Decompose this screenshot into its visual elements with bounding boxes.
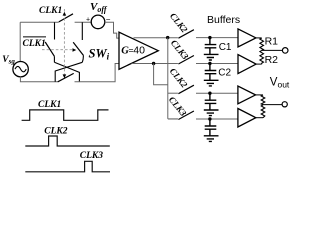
wire cross D2 [55,62,82,82]
mid rail (inverting node) [132,63,168,65]
waveform CLK2 [25,136,110,146]
capacitor C1 [205,38,217,55]
svg-text:R2: R2 [265,54,279,66]
source Vsg [13,61,28,76]
ground [204,136,219,142]
capacitor C3 [205,93,217,110]
op-amp G=40 triangle [119,32,158,69]
resistor zigzag lower (bottom pair) [261,105,265,118]
capacitor C4 [205,119,217,136]
branch4 node dot [208,117,211,120]
branch1 node dot [208,36,211,39]
branch3 node dot [208,92,211,95]
svg-text:40: 40 [133,44,145,56]
output terminal circle [282,48,288,54]
buffer U3 triangle [238,86,256,104]
switch SWi arm (Voff branch) [73,42,83,55]
bypass wire down-right [154,64,168,85]
branch2 switch arm [178,56,194,65]
node stub down from top wire [54,22,56,39]
svg-text:CLK2: CLK2 [44,126,67,136]
branch4 switch arm [178,111,194,120]
ground [204,80,219,86]
svg-text:SWi: SWi [89,47,110,62]
svg-text:R1: R1 [265,35,279,47]
branch1 wire to buffer [196,37,238,39]
svg-text:Vsg: Vsg [2,55,15,66]
wire buffer4 out [256,117,263,119]
branch4 wire from rail [168,118,178,120]
wire below source [20,77,58,82]
svg-text:CLK1: CLK1 [23,39,46,49]
dashed control line vertical [63,9,65,76]
svg-text:CLK2: CLK2 [168,66,190,90]
branch1 switch arm [178,30,194,39]
svg-text:CLK1: CLK1 [39,6,62,16]
buffer U1 triangle [238,29,256,47]
wire buffer1 out [256,37,262,39]
buffer U2 triangle [238,55,256,74]
wire buffer3 out [256,94,263,96]
svg-text:C2: C2 [218,68,231,79]
wire from Vsg to CLK1 switch [20,22,59,61]
arrow up [63,12,67,16]
branch3 switch arm [178,85,194,94]
branch3 wire to buffer [196,92,238,94]
top rail from amp input node to branch1 [134,37,178,39]
svg-text:Buffers: Buffers [207,14,240,26]
wire buffer2 out [256,63,262,65]
stub below Voff junction [81,22,83,40]
branch3 wire from rail [168,92,178,94]
Vout terminal circle [282,102,287,107]
svg-text:CLK3: CLK3 [169,38,191,62]
switch CLK1 arm [59,14,73,22]
ground [204,54,219,60]
output wire to terminal [262,49,283,51]
branch4 wire to buffer [196,118,238,120]
svg-text:CLK3: CLK3 [167,95,189,119]
buffer U4 triangle [238,109,256,128]
wire stub [53,56,55,62]
switch arm bottom [58,73,74,81]
branch2 wire from rail [168,63,178,65]
branch2 node dot [208,62,211,65]
waveform CLK1 [22,110,109,120]
output wire to Vout terminal [263,104,282,106]
wire Voff to amp [105,22,120,38]
dashed control line horizontal [42,49,75,51]
svg-text:CLK1: CLK1 [38,100,61,110]
svg-text:Vout: Vout [270,77,290,90]
svg-text:+: + [86,17,90,24]
waveform CLK3 [25,161,110,172]
branch2 wire to buffer [196,63,238,65]
resistor zigzag upper (bottom pair) [261,95,265,105]
capacitor C2 [205,64,217,81]
switch CLK1 right contact wire [75,21,92,23]
svg-text:CLK2: CLK2 [168,11,190,35]
wire cross D1 [54,62,79,82]
resistor R1 zigzag [260,38,264,50]
switch CLK1bar arm [45,42,54,56]
resistor R2 zigzag [260,50,264,64]
node dot mid rail [152,62,155,65]
source Voff circle [91,15,105,29]
arrow right [73,48,77,52]
ground [204,110,219,116]
svg-text:C1: C1 [219,42,232,53]
wire stub [82,56,83,63]
node dot top rail [166,36,169,39]
svg-text:CLK3: CLK3 [80,151,103,161]
sine inside source [15,66,26,71]
vertical rail [168,38,178,119]
svg-text:Voff: Voff [90,1,108,14]
wire bottom to amp inverting input [75,64,120,82]
arrow down [63,74,67,78]
